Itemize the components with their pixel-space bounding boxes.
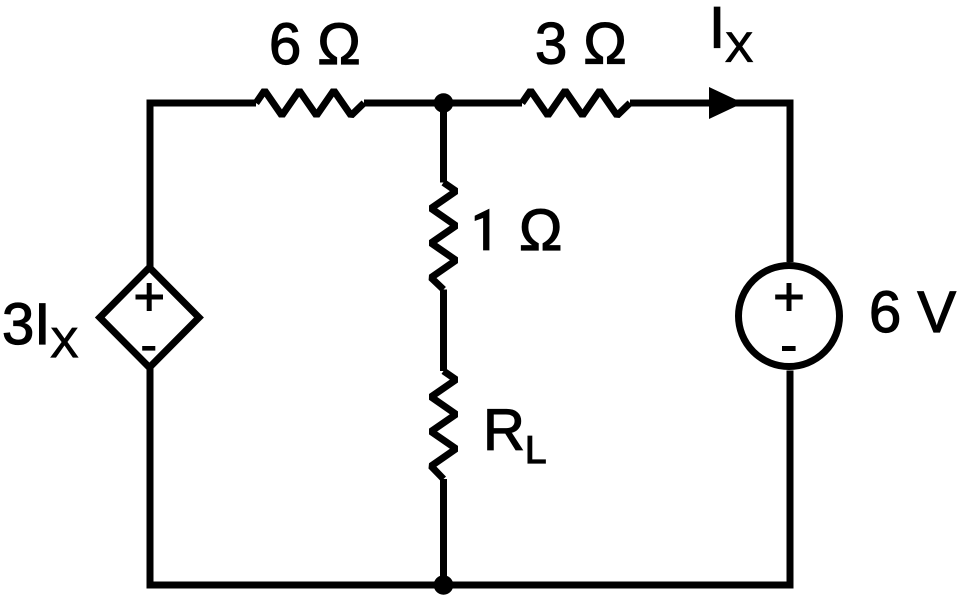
wire bottom [147,582,794,589]
wire middle vertical upper [440,103,447,183]
minus sign in diamond [142,346,155,351]
current arrow Ix [709,87,743,119]
svg-text:6 Ω: 6 Ω [269,12,361,77]
resistor 1 Ohm [431,183,456,290]
wire top-right segment [630,103,790,262]
resistor 6 Ohm [256,91,364,116]
wire top-middle segment [364,100,522,107]
svg-text:3 Ω: 3 Ω [535,12,627,77]
wire middle vertical between resistors [440,290,447,372]
label 1 Ohm digit 1 (drawn, no foot serif) [475,209,490,251]
resistor 3 Ohm [522,91,630,116]
plus sign in circle [775,283,803,311]
svg-text:6 V: 6 V [869,280,956,345]
wire left vertical upper [147,103,154,270]
plus sign in diamond [136,283,164,311]
voltage source 6V circle [739,266,840,367]
wire right vertical lower [787,371,794,586]
wire left vertical lower [147,366,154,585]
resistor RL [431,371,456,479]
wire middle vertical lower [440,479,447,585]
minus sign in circle [782,346,796,351]
dependent source 3Ix diamond [100,268,199,368]
wire top-left segment [150,100,256,104]
svg-text:Ω: Ω [519,198,562,263]
node dot bottom [434,575,454,595]
node dot top [434,93,454,113]
